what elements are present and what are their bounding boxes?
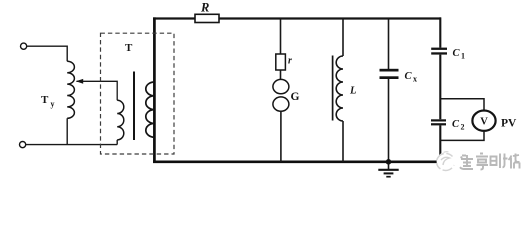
junction dot (386, 159, 392, 165)
dashed box transformer T (101, 33, 175, 154)
wire branch Cx bottom (388, 79, 390, 162)
capacitor Cx (380, 69, 399, 72)
capacitor C1 (431, 48, 447, 50)
terminal upper (21, 43, 27, 49)
svg-text:C: C (453, 48, 461, 59)
transformer T secondary coil (146, 82, 155, 137)
ground (388, 163, 390, 169)
wire terminal to Ty (27, 46, 67, 61)
svg-text:C: C (452, 119, 460, 130)
tap arrow head (76, 79, 83, 84)
svg-text:x: x (413, 75, 417, 84)
wire branch L bottom (342, 121, 344, 162)
capacitor C2 (431, 119, 446, 121)
wire Ty bottom (66, 118, 68, 144)
wire branch r-G top (280, 19, 282, 55)
svg-text:y: y (51, 100, 55, 109)
svg-text:C: C (405, 71, 413, 82)
wire bottom to transformer primary (26, 144, 117, 146)
resistor r (276, 54, 286, 70)
wire r to gap (280, 70, 282, 79)
transformer T primary coil (117, 100, 124, 140)
wire branch r-G bottom (280, 111, 282, 162)
voltmeter V (472, 111, 495, 131)
wire left bus (transformer secondary line) (153, 17, 156, 162)
sphere gap G sphere 2 (273, 97, 289, 111)
wire branch Cx top (388, 19, 390, 70)
svg-text:T: T (41, 94, 49, 106)
svg-text:V: V (480, 116, 488, 127)
wire bottom bus (153, 160, 438, 163)
watermark logo (437, 152, 457, 172)
svg-text:r: r (288, 56, 292, 67)
svg-text:2: 2 (461, 123, 465, 132)
wire voltmeter loop (440, 99, 484, 141)
svg-text:T: T (125, 42, 133, 54)
svg-text:PV: PV (501, 118, 517, 130)
sphere gap G sphere 1 (273, 79, 289, 93)
resistor R (195, 14, 219, 22)
terminal lower (20, 142, 26, 148)
wire branch L top (342, 19, 344, 57)
wire right vertical (C1-C2 branch) (439, 17, 441, 162)
svg-text:R: R (200, 1, 209, 15)
transformer T core (133, 72, 135, 141)
inductor L core bar (332, 56, 334, 121)
svg-text:L: L (349, 86, 356, 97)
svg-text:1: 1 (461, 52, 465, 61)
autotransformer Ty coil (67, 61, 74, 118)
inductor L (336, 56, 343, 121)
wire tap to primary (77, 81, 118, 100)
svg-text:G: G (291, 91, 300, 103)
wire top bus (153, 17, 441, 19)
watermark text (460, 154, 520, 170)
